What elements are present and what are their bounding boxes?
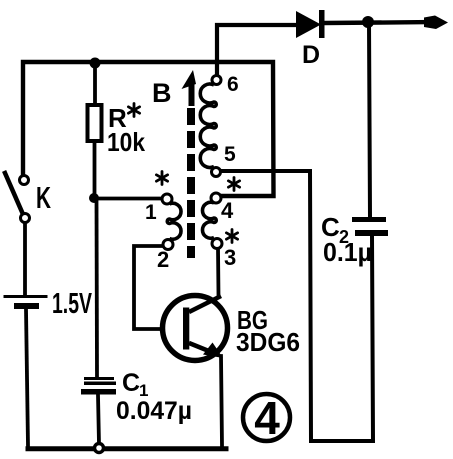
svg-text:0.047µ: 0.047µ <box>116 397 192 425</box>
svg-text:1: 1 <box>145 201 157 224</box>
svg-text:1.5V: 1.5V <box>52 288 92 320</box>
svg-text:3DG6: 3DG6 <box>236 327 300 357</box>
svg-text:D: D <box>302 41 320 69</box>
svg-text:0.1µ: 0.1µ <box>323 237 372 267</box>
svg-text:10k: 10k <box>107 127 145 157</box>
svg-text:3: 3 <box>224 245 236 270</box>
svg-text:4: 4 <box>221 198 234 223</box>
svg-text:2: 2 <box>157 247 169 272</box>
svg-text:4: 4 <box>254 392 280 444</box>
svg-text:K: K <box>36 180 51 215</box>
svg-text:5: 5 <box>224 143 236 166</box>
svg-text:B: B <box>152 78 172 108</box>
svg-text:6: 6 <box>227 73 239 96</box>
svg-text:C: C <box>122 369 140 397</box>
